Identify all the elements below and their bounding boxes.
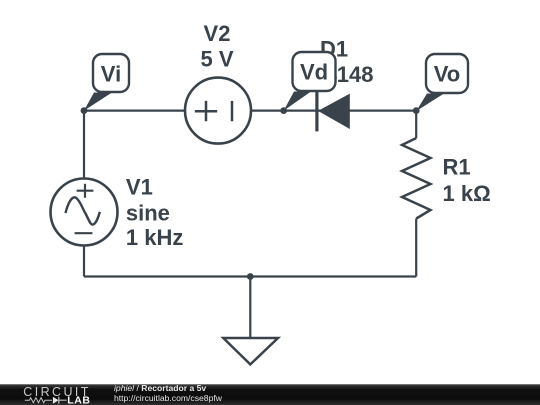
flag Vd pointer [284,92,311,111]
svg-text:http://circuitlab.com/cse8pfw: http://circuitlab.com/cse8pfw [114,393,223,403]
flag Vi pointer [84,93,112,111]
node Vo junction dot [413,107,420,114]
node Vi junction dot [81,107,88,114]
voltage source V1 body [51,179,118,246]
wire ground stem [249,277,251,339]
svg-text:5 V: 5 V [200,47,233,72]
V1 plus sign [77,184,94,198]
flag Vd box [293,52,336,91]
ground symbol [223,338,278,364]
svg-text:V2: V2 [204,21,231,46]
footer bar [0,384,540,405]
node Vd junction dot [280,107,287,114]
voltage source V2 body [185,78,251,144]
svg-text:V1: V1 [126,175,153,200]
diode D1 cathode bar [315,89,318,132]
svg-text:Vi: Vi [101,61,121,86]
V1 sine wave [66,197,100,224]
svg-text:1 kΩ: 1 kΩ [443,181,491,206]
V1 minus sign [75,232,93,234]
wire R1 bottom to bottom rail [415,219,417,277]
svg-text:sine: sine [126,200,170,225]
flag Vo pointer [416,94,444,112]
wire bottom horizontal [84,275,416,277]
wire right vertical Vo node to R1 top [415,111,417,138]
svg-text:Vo: Vo [434,62,460,87]
svg-text:Vd: Vd [300,60,328,85]
node ground junction dot [247,273,254,280]
wire top horizontal Vi to Vo node [84,109,416,111]
svg-text:iphiel / Recortador a 5v: iphiel / Recortador a 5v [114,383,206,393]
wire left vertical Vi node to V1 and down [83,111,85,277]
footer logo resistor-diode icon [25,398,52,403]
diode D1 triangle [318,94,350,129]
svg-text:1 kHz: 1 kHz [126,225,183,250]
flag Vi box [93,54,129,92]
V2 minus sign (rotated) [231,101,234,121]
svg-text:LAB: LAB [67,394,90,405]
svg-text:R1: R1 [443,154,471,179]
resistor R1 zigzag [402,138,431,219]
V2 plus sign [195,101,217,121]
flag Vo box [426,54,468,93]
